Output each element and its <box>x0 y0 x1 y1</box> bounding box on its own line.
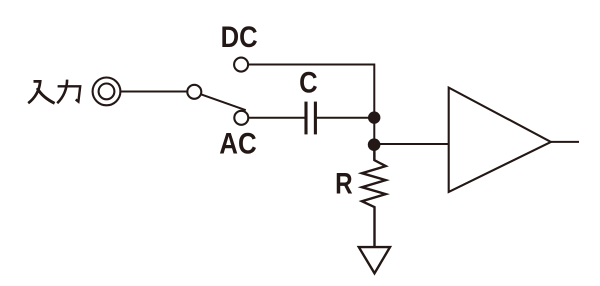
wire AC contact to capacitor <box>248 117 304 119</box>
capacitor C right plate <box>314 102 317 135</box>
op-amp amplifier triangle <box>449 88 551 192</box>
output wire <box>551 141 579 143</box>
ground symbol triangle <box>359 247 390 273</box>
label 入力 (input) kanji 力 <box>57 80 80 104</box>
switch pole contact circle <box>187 85 201 99</box>
junction dot lower <box>368 138 381 151</box>
label 入力 (input) kanji 入 <box>28 81 54 103</box>
vertical bus wire from DC corner down to resistor <box>373 64 375 161</box>
svg-text:R: R <box>335 167 353 200</box>
svg-text:AC: AC <box>219 127 256 160</box>
wire from connector to switch pole <box>121 91 188 93</box>
wire DC contact to vertical bus <box>248 64 374 66</box>
wire capacitor to junction node <box>317 117 374 119</box>
BNC input connector outer circle <box>93 78 121 106</box>
DC contact circle <box>234 58 248 72</box>
svg-text:C: C <box>299 67 318 100</box>
svg-text:DC: DC <box>221 21 258 54</box>
AC contact circle <box>234 111 248 125</box>
switch arm toward AC contact <box>201 94 246 110</box>
capacitor C left plate <box>304 102 307 135</box>
BNC input connector inner circle <box>99 84 115 100</box>
junction dot upper <box>368 111 380 123</box>
wire junction to amplifier input <box>374 143 448 145</box>
resistor R zigzag <box>362 150 386 247</box>
